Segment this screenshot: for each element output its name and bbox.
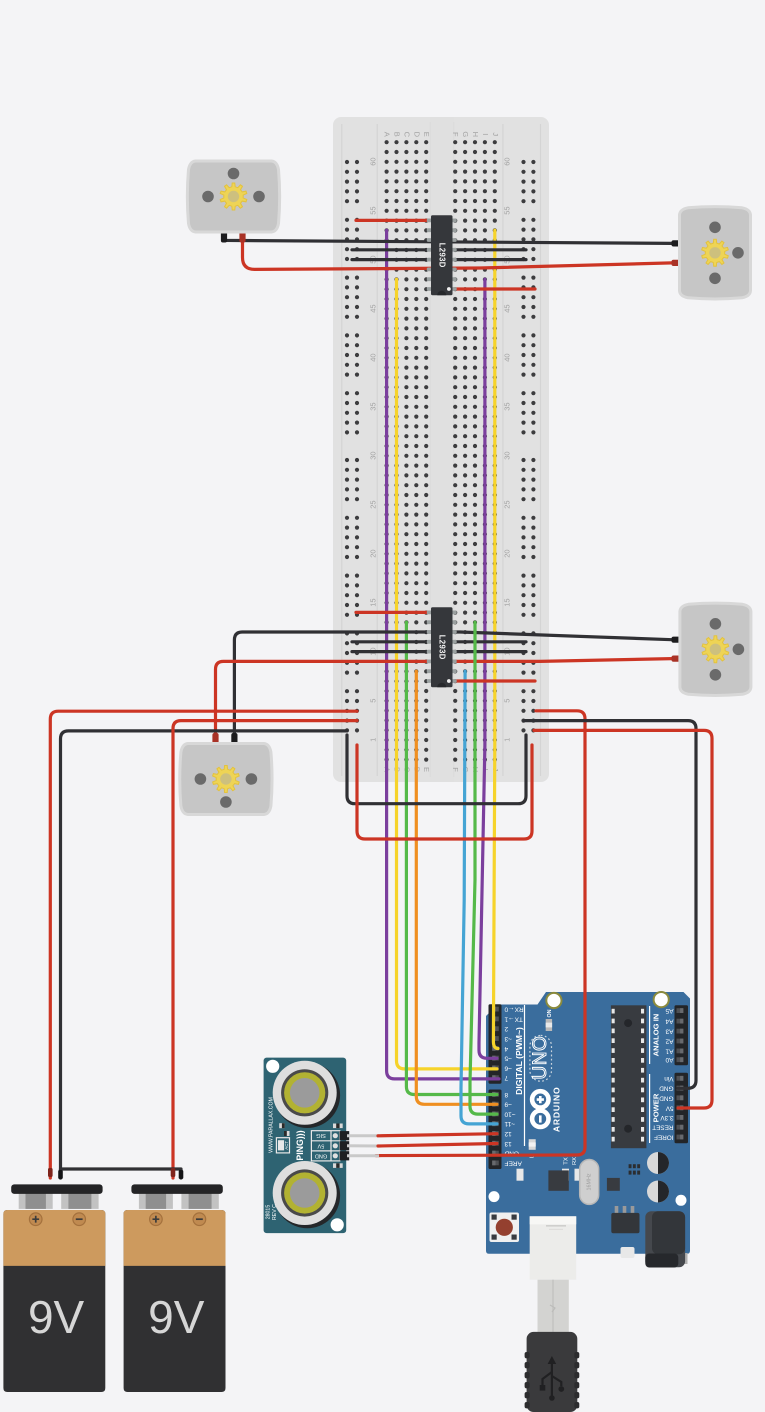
- svg-text:28015: 28015: [265, 1205, 271, 1220]
- wire lead silver SIG: [347, 1134, 379, 1137]
- svg-text:20: 20: [502, 549, 511, 557]
- svg-text:AREF: AREF: [504, 1159, 521, 1166]
- battery 2 (9V): [124, 1184, 226, 1392]
- wire black battery1 - to left rail: [61, 731, 348, 1178]
- svg-text:15: 15: [368, 598, 377, 606]
- svg-text:Vin: Vin: [664, 1075, 674, 1082]
- svg-text:F: F: [451, 132, 460, 137]
- svg-text:~9: ~9: [504, 1101, 512, 1108]
- barrel jack: [645, 1211, 687, 1267]
- wire red rail bridge under breadboard: [357, 745, 532, 839]
- battery wire connectors: [48, 1168, 183, 1179]
- svg-text:30: 30: [368, 451, 377, 459]
- svg-text:ON: ON: [547, 1009, 553, 1017]
- voltage regulator: [611, 1206, 639, 1258]
- wire black motor1 to motor2 (row 52): [224, 233, 672, 243]
- wire red battery1 + to left rail: [50, 711, 357, 1178]
- wire black IC1 row 51 rails: [352, 248, 526, 251]
- svg-text:L293D: L293D: [438, 243, 447, 268]
- wire black right rail to Arduino POWER GND: [524, 721, 696, 1089]
- svg-text:A3: A3: [665, 1028, 673, 1035]
- analog in header A0-A5: [675, 1005, 689, 1065]
- DIGITAL (PWM~) label: [514, 1005, 525, 1146]
- svg-text:A2: A2: [665, 1037, 673, 1044]
- svg-text:A4: A4: [665, 1018, 673, 1025]
- reset button: [490, 1213, 520, 1243]
- svg-text:5: 5: [368, 699, 377, 703]
- svg-text:16MHz: 16MHz: [587, 1173, 593, 1190]
- wire red PING SIG to Arduino pin 12: [378, 1134, 497, 1136]
- ATmega328 chip: [611, 1005, 647, 1148]
- capacitors: [647, 1152, 669, 1203]
- svg-text:20: 20: [368, 549, 377, 557]
- svg-text:45: 45: [502, 304, 511, 312]
- svg-text:I: I: [481, 133, 490, 135]
- power pin labels: [652, 1075, 673, 1141]
- IC U1 L293D (top): [427, 215, 457, 295]
- wire cyan G8 to Arduino pin 11: [461, 671, 497, 1124]
- wire black IC2 row 11 rails: [352, 640, 526, 643]
- svg-text:UNO: UNO: [530, 1036, 551, 1080]
- svg-text:40: 40: [502, 353, 511, 361]
- wire red motor1 to motor2 (row 49): [243, 233, 673, 269]
- svg-text:E: E: [422, 132, 431, 137]
- svg-text:1: 1: [502, 738, 511, 742]
- wire purple A53 to Arduino pin 7: [387, 230, 499, 1079]
- svg-text:55: 55: [502, 206, 511, 214]
- breadboard row numbers: [368, 157, 511, 741]
- svg-text:A: A: [383, 132, 392, 137]
- svg-text:12: 12: [504, 1130, 512, 1137]
- svg-text:TX→1: TX→1: [504, 1015, 523, 1022]
- svg-text:~3: ~3: [504, 1035, 512, 1042]
- svg-text:GND: GND: [315, 1152, 327, 1158]
- svg-text:~6: ~6: [504, 1064, 512, 1071]
- svg-text:4: 4: [504, 1045, 508, 1052]
- wire black rail bridge under breadboard: [347, 735, 526, 804]
- svg-text:ANALOG IN: ANALOG IN: [652, 1014, 661, 1057]
- svg-text:A1: A1: [665, 1047, 673, 1054]
- wire red left rail to IC1 pin 16 (row 54): [356, 219, 428, 222]
- wire red right rail to PING GND: [376, 711, 585, 1156]
- digital header pins 0-13 GND AREF: [489, 1004, 502, 1169]
- wire red PING 5V to Arduino pin 13: [378, 1144, 497, 1147]
- svg-text:35: 35: [502, 402, 511, 410]
- svg-text:5V: 5V: [665, 1104, 674, 1111]
- svg-text:3.3V: 3.3V: [660, 1114, 674, 1121]
- svg-text:60: 60: [502, 157, 511, 165]
- UNO logo: [530, 1035, 552, 1081]
- svg-text:ACT: ACT: [284, 1141, 289, 1150]
- motor M2 (top right): [672, 207, 751, 299]
- svg-text:45: 45: [368, 304, 377, 312]
- wire lead silver GND: [347, 1154, 379, 1157]
- wire black IC1 row 50 rails: [352, 258, 526, 261]
- svg-text:B: B: [393, 132, 402, 137]
- svg-text:RX←0: RX←0: [504, 1006, 524, 1013]
- svg-text:RESET: RESET: [652, 1124, 673, 1131]
- svg-text:ARDUINO: ARDUINO: [551, 1086, 561, 1132]
- svg-text:RX: RX: [572, 1157, 578, 1165]
- USB cable: [525, 1216, 580, 1412]
- svg-text:D: D: [412, 132, 421, 138]
- svg-text:55: 55: [368, 206, 377, 214]
- svg-text:TX: TX: [564, 1157, 570, 1165]
- svg-text:E: E: [422, 767, 431, 772]
- wire green C13 to Arduino pin 8: [406, 622, 497, 1094]
- svg-text:H: H: [471, 132, 480, 137]
- svg-text:~11: ~11: [504, 1120, 515, 1127]
- svg-text:7: 7: [504, 1074, 508, 1081]
- svg-text:WWW.PARALLAX.COM: WWW.PARALLAX.COM: [268, 1097, 274, 1153]
- svg-text:G: G: [461, 131, 470, 137]
- wire red battery2 + to left rail: [173, 721, 357, 1178]
- wire red IC2 row 7 to right rail: [454, 679, 535, 682]
- ultrasonic sensor PING))): [264, 1058, 350, 1234]
- wire black IC2 row 10 rails: [352, 650, 526, 653]
- motor M4 (bottom left): [180, 733, 272, 815]
- wire lead silver 5V: [347, 1144, 379, 1147]
- svg-text:13: 13: [504, 1140, 512, 1147]
- wire red IC1 row 47 to right rail: [454, 287, 535, 290]
- wire red left rail to IC2 pin 16 (row 14): [356, 611, 428, 614]
- svg-text:1: 1: [368, 738, 377, 742]
- svg-text:SIG: SIG: [316, 1132, 326, 1138]
- svg-text:35: 35: [368, 402, 377, 410]
- wire green H13 to Arduino pin 10: [470, 622, 497, 1114]
- wire purple I48 to Arduino pin 5: [479, 279, 497, 1058]
- svg-text:PING))): PING))): [295, 1130, 305, 1160]
- ANALOG IN label: [650, 1006, 661, 1064]
- wire red motor4 to motor3 (row 9): [216, 659, 673, 742]
- crystal oscillator: [580, 1160, 599, 1205]
- svg-text:A5: A5: [665, 1007, 673, 1014]
- svg-text:25: 25: [368, 500, 377, 508]
- svg-text:15: 15: [502, 598, 511, 606]
- wire red right rail to Arduino 5V: [534, 730, 712, 1108]
- Arduino infinity logo: [532, 1086, 561, 1132]
- wire black battery1 - to battery2 -: [61, 1169, 182, 1178]
- wire orange D8 to Arduino pin 9: [416, 671, 497, 1104]
- svg-text:5V: 5V: [317, 1142, 324, 1148]
- battery 1 (9V): [3, 1184, 105, 1392]
- breadboard: [333, 117, 549, 782]
- svg-text:F: F: [451, 767, 460, 772]
- wire yellow B48 to Arduino pin 6: [397, 279, 498, 1069]
- svg-text:GND: GND: [659, 1085, 674, 1092]
- svg-text:60: 60: [368, 157, 377, 165]
- ON LED: [546, 1009, 553, 1031]
- IC U2 L293D (bottom): [427, 607, 457, 687]
- svg-text:30: 30: [502, 451, 511, 459]
- svg-text:~10: ~10: [504, 1110, 515, 1117]
- wire black motor4 to motor3 (row 12): [234, 632, 672, 742]
- svg-text:9V: 9V: [148, 1291, 205, 1343]
- digital pin labels: [504, 1006, 524, 1167]
- svg-text:DIGITAL (PWM~): DIGITAL (PWM~): [514, 1027, 524, 1095]
- svg-text:~5: ~5: [504, 1055, 512, 1062]
- svg-text:25: 25: [502, 500, 511, 508]
- POWER label: [650, 1074, 661, 1143]
- svg-text:8: 8: [504, 1091, 508, 1098]
- svg-text:5: 5: [502, 699, 511, 703]
- misc chips: [548, 1164, 640, 1191]
- motor M1 (top left): [187, 161, 279, 243]
- svg-text:A0: A0: [665, 1056, 673, 1063]
- wire yellow J53 to Arduino pin 4: [493, 230, 498, 1048]
- svg-text:REV C: REV C: [272, 1204, 278, 1220]
- analog pin labels: [665, 1007, 673, 1063]
- L LED: [529, 1139, 536, 1158]
- TX RX labels and SMD leds: [517, 1157, 582, 1181]
- svg-text:2: 2: [504, 1025, 508, 1032]
- svg-text:POWER: POWER: [652, 1093, 661, 1122]
- svg-text:C: C: [402, 132, 411, 138]
- svg-text:40: 40: [368, 353, 377, 361]
- breadboard column letters: [383, 131, 500, 772]
- svg-text:L293D: L293D: [438, 635, 447, 660]
- Arduino UNO board: [486, 992, 690, 1254]
- svg-text:IOREF: IOREF: [654, 1134, 674, 1141]
- motor M3 (right): [672, 603, 751, 695]
- svg-text:J: J: [491, 132, 500, 136]
- svg-text:9V: 9V: [28, 1291, 85, 1343]
- svg-text:GND: GND: [659, 1094, 674, 1101]
- power header: [675, 1073, 689, 1144]
